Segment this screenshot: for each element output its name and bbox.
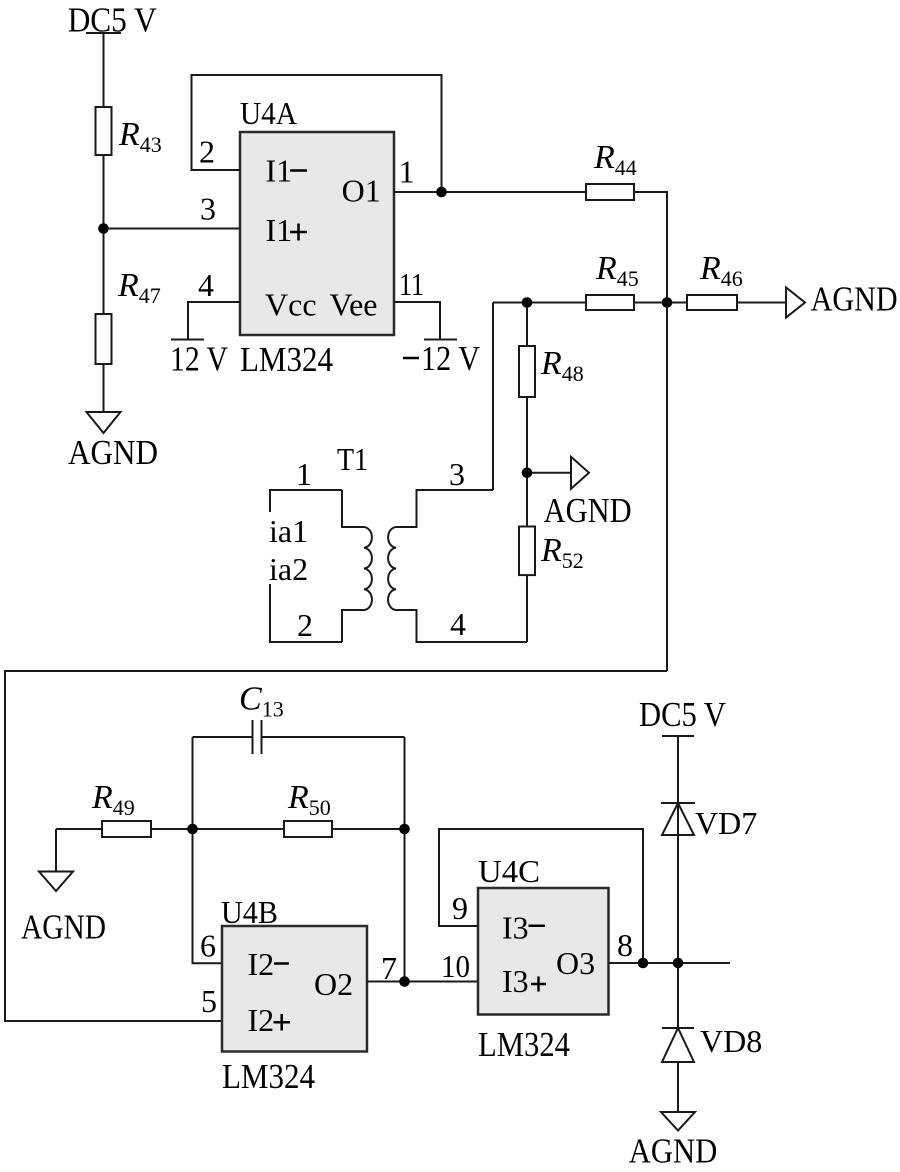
svg-text:U4C: U4C: [478, 853, 540, 889]
svg-text:LM324: LM324: [222, 1057, 315, 1096]
svg-text:11: 11: [399, 266, 424, 302]
svg-text:ia2: ia2: [269, 551, 308, 587]
svg-text:AGND: AGND: [68, 433, 158, 472]
svg-text:9: 9: [452, 890, 468, 926]
svg-text:LM324: LM324: [478, 1025, 570, 1064]
svg-text:AGND: AGND: [629, 1132, 718, 1171]
svg-text:I2: I2: [248, 946, 275, 982]
svg-text:5: 5: [201, 983, 217, 1019]
svg-text:10: 10: [441, 948, 470, 984]
svg-text:AGND: AGND: [21, 908, 106, 947]
svg-text:O1: O1: [342, 172, 381, 208]
svg-text:U4A: U4A: [240, 95, 297, 131]
svg-text:LM324: LM324: [240, 340, 333, 379]
svg-text:I1: I1: [266, 152, 293, 188]
svg-text:DC5 V: DC5 V: [639, 695, 726, 734]
svg-text:3: 3: [200, 191, 216, 227]
svg-text:4: 4: [198, 267, 214, 303]
svg-text:1: 1: [296, 456, 312, 492]
svg-text:DC5 V: DC5 V: [68, 0, 157, 39]
svg-text:12 V: 12 V: [170, 340, 228, 379]
svg-text:ia1: ia1: [269, 513, 308, 549]
svg-text:VD7: VD7: [695, 805, 757, 841]
svg-text:Vcc: Vcc: [265, 287, 317, 323]
svg-text:AGND: AGND: [544, 491, 632, 530]
svg-text:8: 8: [617, 927, 633, 963]
svg-text:O3: O3: [556, 945, 595, 981]
svg-text:U4B: U4B: [221, 894, 278, 930]
svg-text:I2: I2: [248, 1002, 275, 1038]
svg-text:4: 4: [450, 606, 466, 642]
svg-text:I3: I3: [502, 910, 529, 946]
svg-text:6: 6: [200, 928, 216, 964]
svg-text:12 V: 12 V: [421, 339, 480, 378]
svg-text:VD8: VD8: [700, 1023, 762, 1059]
svg-text:T1: T1: [337, 441, 368, 477]
svg-text:Vee: Vee: [330, 287, 378, 323]
svg-text:7: 7: [381, 950, 397, 986]
svg-text:I3: I3: [502, 963, 529, 999]
svg-text:2: 2: [199, 134, 215, 170]
svg-text:2: 2: [297, 607, 313, 643]
svg-text:I1: I1: [266, 212, 293, 248]
svg-text:O2: O2: [314, 966, 353, 1002]
svg-text:AGND: AGND: [811, 280, 898, 319]
svg-text:3: 3: [449, 456, 465, 492]
svg-text:1: 1: [399, 154, 415, 190]
